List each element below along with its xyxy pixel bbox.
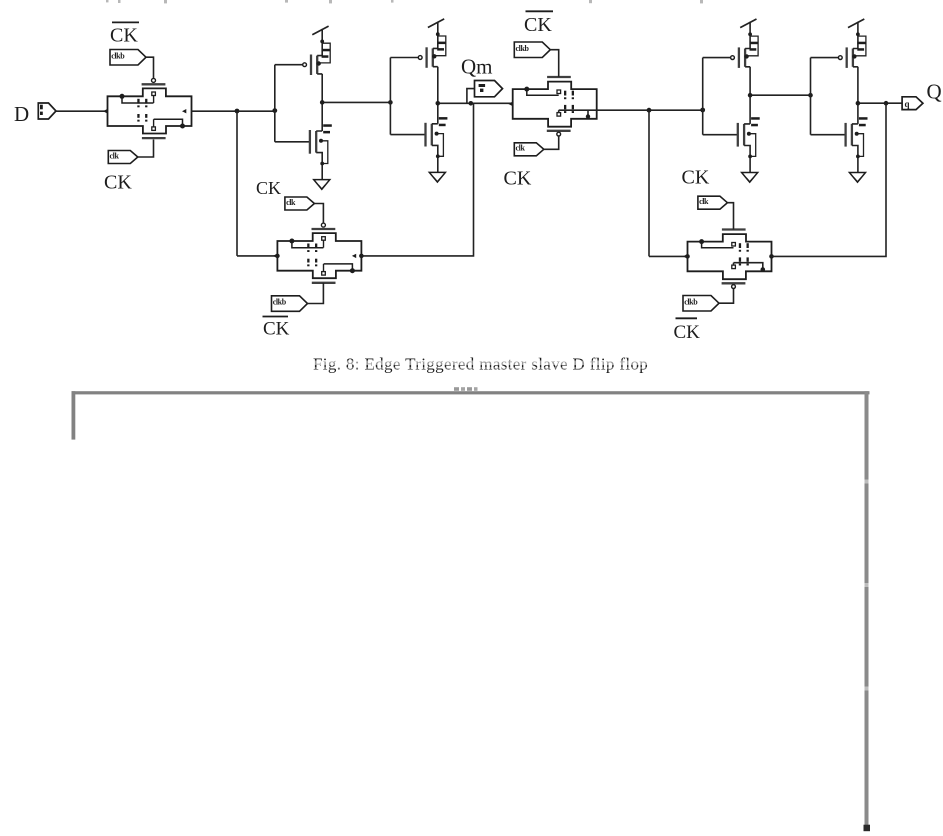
frame bottom right tip <box>864 825 871 832</box>
wire clkb flag to TG1 gate <box>146 57 154 78</box>
label CKbar below TG3 <box>263 317 290 340</box>
label CKbar above TG1 <box>110 22 139 46</box>
svg-text:CK: CK <box>524 14 552 36</box>
junction dot Q feedback <box>884 101 889 106</box>
nmos of U1 <box>275 124 332 189</box>
svg-text:D: D <box>14 102 29 126</box>
TG2 lower right dot <box>586 114 590 118</box>
inverter U1 input bar <box>274 65 276 142</box>
clkb flag of TG3 <box>272 296 308 312</box>
TG2 bottom contact tick <box>558 110 560 113</box>
svg-text:CK: CK <box>504 168 532 190</box>
wire TG1 to inverter U1 input <box>192 110 275 112</box>
junction dot TG3 left <box>275 254 280 259</box>
pmos of U1 <box>275 26 330 75</box>
junction dot TG3 right <box>359 254 364 259</box>
inverter U3 input bar <box>702 58 704 135</box>
inverter U2 input bar <box>389 58 391 135</box>
junction dot at U2 input <box>388 100 393 105</box>
transmission gate TG1 <box>103 78 192 138</box>
wire clkb flag to TG2 gate <box>550 50 558 77</box>
frame top edge <box>72 391 870 394</box>
TG4 inner lower dot <box>761 267 766 272</box>
svg-text:CK: CK <box>104 172 132 194</box>
svg-text:q: q <box>905 99 910 109</box>
clkb flag of TG1 <box>110 50 146 66</box>
clk flag of TG3 <box>285 197 315 210</box>
svg-text:CK: CK <box>674 322 701 343</box>
output junction dot U3 <box>748 93 753 98</box>
pmos of U4 <box>811 19 866 68</box>
nmos of U3 <box>703 117 760 182</box>
label CKbar above TG2 <box>524 11 553 36</box>
nmos of U4 <box>811 117 868 182</box>
transmission gate TG3 (master feedback) <box>273 223 362 283</box>
svg-text:Qm: Qm <box>461 55 493 79</box>
pmos of U2 <box>390 19 445 68</box>
wire D to TG1 <box>56 110 108 112</box>
label CKbar below TG4 <box>674 318 701 343</box>
frame left edge stub <box>72 391 76 439</box>
node B junction dot <box>647 108 652 113</box>
output port Q <box>902 97 923 110</box>
output junction dot U2 (Qm node) <box>436 101 441 106</box>
pmos of U3 <box>703 19 758 68</box>
drain wire of U2 to output <box>438 67 513 124</box>
TG2 inner lower line to exit <box>559 109 597 111</box>
wire clk flag to TG2 gate <box>544 136 559 150</box>
wire clk flag to TG3 gate <box>314 204 323 224</box>
wire TG2 to inverter U3 <box>597 109 703 111</box>
frame right edge <box>865 391 869 830</box>
junction dot Qm node <box>469 101 474 106</box>
wire clkb flag to TG3 gate <box>308 283 324 304</box>
junction dot at U4 input <box>808 93 813 98</box>
output junction dot U4 (Q node) <box>856 101 861 106</box>
svg-text:CK: CK <box>110 25 138 47</box>
slave feedback left wire <box>649 110 688 256</box>
TG4 bottom contact tick <box>733 263 735 266</box>
top page text fragments <box>106 0 703 3</box>
wire clkb flag to TG4 gate <box>719 288 734 303</box>
transmission gate TG4 (slave feedback) <box>683 230 772 289</box>
output junction dot U1 <box>320 100 325 105</box>
clk flag of TG1 <box>108 151 138 164</box>
drain wire of U4 to output <box>858 67 902 124</box>
junction dot at U3 input <box>700 108 705 113</box>
junction dot at U1 input <box>272 108 277 113</box>
TG4 inner lower line <box>734 263 763 269</box>
svg-text:Q: Q <box>927 80 942 104</box>
inverter U4 input bar <box>810 58 812 135</box>
node A junction dot <box>235 109 240 114</box>
drain wire of U1 to output <box>322 74 390 131</box>
TG2 lower right step <box>587 110 589 116</box>
clk flag of TG2 <box>514 143 544 156</box>
svg-text:CK: CK <box>256 178 281 198</box>
wire clk flag to TG4 gate <box>727 203 733 230</box>
nmos of U2 <box>390 117 447 182</box>
output port Qm <box>475 81 503 97</box>
clkb flag of TG4 <box>683 296 719 312</box>
svg-text:CK: CK <box>263 319 290 340</box>
wire clk flag to TG1 gate <box>138 140 154 158</box>
clk flag of TG4 <box>698 196 728 209</box>
transmission gate TG2 <box>508 77 597 136</box>
input port D <box>38 103 56 119</box>
junction dot TG4 left <box>685 254 690 259</box>
clkb flag of TG2 <box>514 42 550 58</box>
master feedback left wire <box>237 111 277 256</box>
slave feedback right wire <box>772 103 887 256</box>
junction dot TG4 right <box>769 254 774 259</box>
master feedback right wire <box>361 103 473 256</box>
drain wire of U3 to output <box>750 67 810 124</box>
caption Fig. 8 <box>310 355 655 374</box>
svg-text:CK: CK <box>682 167 710 189</box>
frame tiny header text <box>454 387 478 391</box>
stub Qm port to wire <box>467 89 475 104</box>
